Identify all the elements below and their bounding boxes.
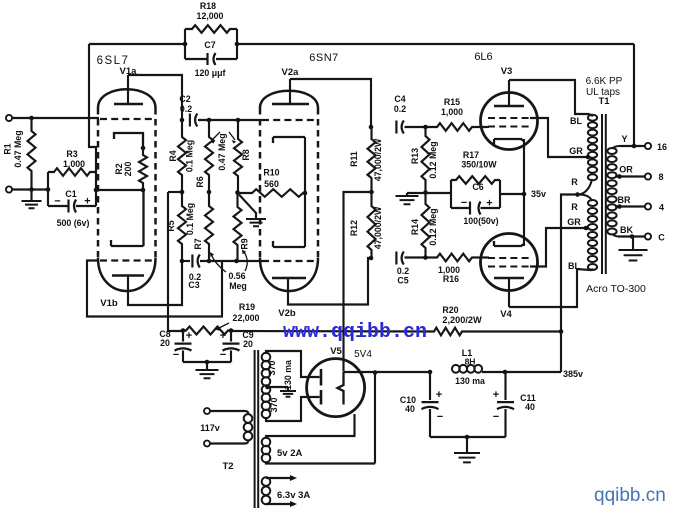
- svg-text:R16: R16: [443, 274, 459, 284]
- svg-text:R3: R3: [66, 149, 77, 159]
- svg-text:+: +: [436, 389, 442, 401]
- svg-text:47,000/2W: 47,000/2W: [373, 206, 383, 249]
- input terminal bottom: [6, 186, 12, 192]
- resistor R19: [183, 327, 231, 335]
- svg-text:BK: BK: [620, 225, 633, 235]
- wire V3 screen to GR: [530, 118, 586, 157]
- plate V5 top: [320, 369, 323, 386]
- svg-text:www.qqibb.cn: www.qqibb.cn: [283, 321, 427, 344]
- cathode V1a: [114, 133, 143, 148]
- svg-text:6L6: 6L6: [474, 51, 492, 63]
- node R3C1 right / cathode junction: [94, 188, 99, 193]
- grid V1a: [100, 118, 152, 120]
- resistor R14: [422, 193, 430, 258]
- terminal 117v top: [204, 408, 210, 414]
- svg-text:5V4: 5V4: [354, 349, 372, 360]
- wire V2a plate to C4: [290, 79, 371, 127]
- svg-text:40: 40: [405, 404, 415, 414]
- capacitor C2: [189, 114, 191, 127]
- resistor R3 / capacitor C1 box: [48, 172, 96, 206]
- wire L1 right: [482, 371, 505, 373]
- node R4-R5: [180, 190, 185, 195]
- node R8-R9-R10: [235, 190, 240, 195]
- svg-text:6.3v 3A: 6.3v 3A: [277, 490, 310, 501]
- svg-text:C7: C7: [204, 40, 215, 50]
- terminal 117v bottom: [204, 441, 210, 447]
- resistor R11: [368, 127, 376, 192]
- wire V1a plate to C2: [128, 75, 182, 120]
- wire C8 C9 bottoms: [183, 361, 231, 363]
- svg-text:C4: C4: [394, 94, 405, 104]
- svg-text:C6: C6: [472, 182, 483, 192]
- wire input top to grid: [12, 117, 99, 119]
- node R13-R14: [423, 190, 428, 195]
- wire C3 to V2b grid: [200, 260, 262, 262]
- output terminal 8: [645, 173, 651, 179]
- svg-text:R1: R1: [3, 143, 13, 154]
- svg-text:0.1 Meg: 0.1 Meg: [185, 140, 195, 172]
- svg-text:C3: C3: [188, 280, 199, 290]
- wire V2b plate to C5: [288, 258, 371, 305]
- node R11-R12: [369, 190, 374, 195]
- svg-text:20: 20: [243, 339, 253, 349]
- grid V3: [488, 125, 530, 127]
- T1 primary lower: [588, 200, 597, 206]
- cathode V1b: [111, 190, 144, 246]
- T1 primary upper: [588, 115, 597, 121]
- svg-text:R7: R7: [193, 238, 203, 249]
- wire B+ to 5v winding: [374, 373, 376, 464]
- resistor R13: [422, 127, 430, 193]
- resistor R20: [431, 328, 466, 336]
- wire HV center tap: [266, 386, 288, 388]
- svg-text:qqibb.cn: qqibb.cn: [594, 485, 666, 506]
- wire V2 cathodes: [304, 137, 306, 247]
- svg-text:V5: V5: [330, 346, 342, 357]
- node R13 top: [423, 125, 428, 130]
- input terminal top: [6, 115, 12, 121]
- node R19 right: [229, 328, 234, 333]
- svg-text:6.6K PP: 6.6K PP: [586, 76, 623, 87]
- node C4 left: [369, 125, 374, 130]
- svg-text:560: 560: [264, 179, 279, 189]
- svg-text:500 (6v): 500 (6v): [57, 218, 90, 228]
- svg-text:0.47 Meg: 0.47 Meg: [13, 130, 23, 167]
- wire tap BK: [618, 235, 645, 237]
- svg-text:V4: V4: [500, 309, 512, 320]
- svg-text:V2a: V2a: [282, 67, 300, 78]
- svg-text:−: −: [461, 197, 467, 209]
- ground V2 cathode network: [239, 195, 256, 220]
- wire 6.3v top: [266, 477, 291, 479]
- svg-text:4: 4: [659, 203, 664, 213]
- svg-text:OR: OR: [619, 165, 633, 175]
- plate V2a: [272, 103, 309, 106]
- svg-text:−: −: [220, 349, 226, 361]
- svg-text:120 μμf: 120 μμf: [195, 68, 226, 78]
- svg-text:R12: R12: [349, 220, 359, 236]
- svg-text:0.2: 0.2: [394, 104, 406, 114]
- screen V4: [488, 265, 530, 267]
- grid V2b: [262, 260, 316, 262]
- node R6 top: [207, 118, 212, 123]
- wire B+ feeder left: [168, 192, 183, 331]
- pointer to R6: [212, 132, 220, 140]
- svg-text:370: 370: [267, 361, 277, 376]
- capacitor C4: [395, 121, 397, 134]
- svg-text:R17: R17: [463, 150, 479, 160]
- node R18-C7 right: [235, 42, 240, 47]
- tube V2 envelope: [259, 108, 262, 258]
- resistor R6: [205, 120, 213, 192]
- svg-text:130 ma: 130 ma: [455, 376, 485, 386]
- svg-text:V3: V3: [501, 66, 513, 77]
- wire 35v node: [500, 193, 524, 195]
- wire 5v bottom: [266, 462, 375, 464]
- node C8C9 ground: [205, 360, 210, 365]
- choke L1: [452, 365, 460, 373]
- plate V4: [494, 277, 524, 280]
- resistor R1: [28, 118, 36, 190]
- resistor R8: [234, 120, 242, 193]
- svg-text:R9: R9: [240, 238, 250, 249]
- T1 secondary: [607, 148, 616, 154]
- node V1a cathode / R2 top: [141, 146, 146, 151]
- grid V4: [488, 257, 530, 259]
- node HV center tap: [265, 385, 270, 390]
- wire V1b grid line: [87, 261, 222, 317]
- node R1 bottom: [29, 187, 34, 192]
- filament V5: [338, 372, 344, 405]
- plate V5 bottom: [320, 390, 323, 405]
- ground HV center tap: [287, 387, 289, 391]
- svg-text:BL: BL: [570, 116, 582, 126]
- ground C8C9: [206, 362, 208, 370]
- svg-text:40: 40: [525, 402, 535, 412]
- svg-text:0.12 Meg: 0.12 Meg: [428, 208, 438, 245]
- wire V1b plate coupling: [128, 261, 182, 305]
- svg-text:1,000: 1,000: [441, 107, 463, 117]
- svg-text:R: R: [571, 202, 578, 212]
- node R18-C7 left: [183, 42, 188, 47]
- svg-text:R5: R5: [166, 220, 176, 231]
- resistor R15: [433, 123, 487, 131]
- capacitor C8: [182, 331, 184, 342]
- wire R20 to B+: [466, 330, 561, 332]
- screen V3: [488, 117, 530, 119]
- wire C3 line left: [182, 260, 190, 262]
- svg-text:R10: R10: [263, 168, 279, 178]
- svg-text:6SN7: 6SN7: [309, 52, 339, 64]
- wire filter bottom: [430, 436, 506, 438]
- resistor R16: [433, 254, 487, 262]
- svg-text:130 ma: 130 ma: [283, 360, 293, 390]
- ground R13R14: [406, 193, 408, 196]
- wire C4 to R15: [405, 126, 434, 128]
- wire B+ to V5 cathode: [344, 192, 372, 371]
- svg-text:8: 8: [658, 172, 663, 182]
- tube V4 envelope: [481, 234, 538, 291]
- svg-text:R4: R4: [168, 150, 178, 161]
- svg-text:C1: C1: [65, 189, 76, 199]
- capacitor C9: [230, 331, 232, 342]
- wire tap OR: [615, 175, 645, 177]
- capacitor C10: [429, 372, 431, 400]
- node R6-R7: [207, 190, 212, 195]
- svg-text:R6: R6: [195, 176, 205, 187]
- output terminal 16: [645, 143, 651, 149]
- svg-text:R8: R8: [241, 149, 251, 160]
- wire feedback to input cathode node: [89, 44, 96, 172]
- node 35v: [522, 192, 527, 197]
- wire HV bottom to V5 plate: [266, 397, 320, 421]
- plate V1b: [112, 274, 144, 277]
- svg-text:12,000: 12,000: [197, 11, 224, 21]
- svg-text:385v: 385v: [563, 369, 583, 379]
- resistor R18 / capacitor C7 feedback box: [185, 29, 237, 59]
- ground input: [30, 190, 32, 202]
- T2 primary winding: [244, 414, 253, 423]
- svg-text:C2: C2: [179, 94, 190, 104]
- svg-text:C: C: [658, 233, 665, 243]
- wire feedback rail right segment: [237, 43, 634, 45]
- svg-text:+: +: [486, 198, 492, 210]
- node R19 left: [181, 328, 186, 333]
- svg-text:370: 370: [269, 398, 279, 413]
- pointer 0.56 to R9: [244, 252, 247, 271]
- svg-text:T1: T1: [598, 96, 610, 107]
- svg-text:22,000: 22,000: [233, 313, 260, 323]
- node L1 right: [503, 370, 508, 375]
- svg-text:Meg: Meg: [229, 281, 247, 291]
- capacitor C11: [504, 372, 506, 400]
- capacitor C3: [191, 255, 193, 268]
- wire ground line: [407, 192, 451, 194]
- wire HV top to V5 plate: [266, 351, 320, 377]
- node Y: [632, 144, 637, 149]
- T2 5v winding: [262, 438, 271, 447]
- node R8 top: [236, 118, 241, 123]
- wire V5 output: [344, 371, 431, 373]
- svg-text:117v: 117v: [200, 423, 220, 433]
- wire R15 to V3 grid: [487, 126, 489, 128]
- wire V3 plate to T1: [509, 80, 589, 114]
- wire V4 plate to T1: [509, 269, 590, 307]
- wire R16 to V4 grid: [487, 256, 489, 258]
- svg-text:R: R: [571, 177, 578, 187]
- svg-text:16: 16: [657, 142, 667, 152]
- svg-text:0.12 Meg: 0.12 Meg: [428, 141, 438, 178]
- svg-text:+: +: [493, 389, 499, 401]
- wire feedback rail left segment: [89, 43, 185, 45]
- wire tap BR: [615, 205, 645, 207]
- resistor R12: [368, 192, 376, 258]
- node R12 bottom: [369, 256, 374, 261]
- T2 HV winding: [262, 353, 271, 362]
- wire input bottom: [12, 188, 48, 190]
- svg-text:8H: 8H: [465, 357, 476, 367]
- svg-text:0.2: 0.2: [180, 104, 192, 114]
- wire 5v top: [266, 414, 355, 438]
- node C3 left: [180, 259, 185, 264]
- svg-text:R11: R11: [349, 151, 359, 167]
- svg-text:R20: R20: [442, 305, 458, 315]
- svg-text:C5: C5: [397, 276, 408, 286]
- node R14 bottom: [423, 255, 428, 260]
- T2 6.3v winding: [262, 477, 271, 486]
- svg-text:1,000: 1,000: [63, 159, 85, 169]
- wire R taps to B+: [561, 195, 578, 373]
- ground filter: [466, 437, 468, 453]
- svg-text:R13: R13: [410, 148, 420, 164]
- svg-text:5v 2A: 5v 2A: [277, 448, 302, 459]
- wire 117v top: [210, 411, 249, 415]
- svg-text:−: −: [54, 196, 60, 208]
- wire 117v bottom: [210, 440, 249, 444]
- svg-text:V2b: V2b: [278, 308, 296, 319]
- output terminal C: [645, 233, 651, 239]
- svg-text:0.1 Meg: 0.1 Meg: [185, 203, 195, 235]
- ground BK: [632, 237, 634, 251]
- T1 core: [602, 114, 606, 274]
- wire cathode node to R2 bottom: [96, 189, 143, 191]
- wire R19 to R20 line: [231, 330, 431, 333]
- pointer R19: [218, 323, 229, 329]
- svg-text:47,000/2W: 47,000/2W: [373, 138, 383, 181]
- tap GR bottom: [584, 226, 589, 231]
- resistor R5: [178, 192, 186, 261]
- node R taps: [575, 192, 580, 197]
- resistor R17 / capacitor C6 box: [451, 180, 500, 208]
- svg-text:R14: R14: [410, 219, 420, 235]
- wire feedback drop to output tap Y: [633, 44, 635, 146]
- node R3-C1 box left: [46, 187, 51, 192]
- resistor R9: [234, 193, 242, 262]
- plate V3: [494, 105, 524, 108]
- svg-text:−: −: [437, 411, 443, 423]
- node R10 right: [303, 191, 308, 196]
- svg-text:20: 20: [160, 338, 170, 348]
- svg-text:Y: Y: [621, 134, 627, 144]
- node filter ground: [465, 435, 470, 440]
- cathode V2a: [273, 137, 305, 143]
- grid V2a: [262, 119, 316, 121]
- svg-text:R19: R19: [239, 302, 255, 312]
- node R9 bottom: [234, 259, 239, 264]
- node C2-R4: [180, 118, 185, 123]
- tube V1 envelope: [97, 108, 100, 258]
- tube V3 envelope: [481, 93, 538, 150]
- node R1 top: [29, 116, 34, 121]
- svg-text:0.47 Meg: 0.47 Meg: [217, 133, 227, 170]
- node V5 B+: [373, 370, 378, 375]
- svg-text:−: −: [173, 349, 179, 361]
- svg-text:Acro TO-300: Acro TO-300: [586, 283, 646, 295]
- svg-text:V1b: V1b: [100, 298, 118, 309]
- cathode V2b: [273, 241, 305, 247]
- node L1 left: [428, 370, 433, 375]
- tap GR top: [586, 155, 591, 160]
- svg-text:0.56: 0.56: [228, 271, 245, 281]
- node C3 right: [207, 259, 212, 264]
- T2 core: [255, 350, 259, 508]
- plate V1a: [114, 103, 143, 106]
- svg-text:R18: R18: [200, 1, 216, 11]
- node B+ R20: [559, 329, 564, 334]
- wire B+ stub to R4R5 node: [168, 191, 182, 193]
- resistor R10: [238, 189, 306, 197]
- node BK: [630, 234, 635, 239]
- resistor R7: [205, 192, 213, 261]
- node R2 bottom: [141, 188, 146, 193]
- cathode V3: [494, 139, 524, 144]
- svg-text:R15: R15: [444, 97, 460, 107]
- node BR: [617, 204, 622, 209]
- svg-text:BR: BR: [618, 195, 631, 205]
- wire 6.3v bottom: [266, 503, 291, 505]
- svg-text:GR: GR: [569, 146, 583, 156]
- pointer 0.56 to R7: [211, 254, 226, 272]
- svg-text:100(50v): 100(50v): [463, 216, 498, 226]
- cathode V4: [494, 241, 524, 246]
- wire V4 screen to GR: [530, 228, 585, 267]
- svg-text:35v: 35v: [531, 189, 546, 199]
- wire tap Y: [620, 145, 645, 147]
- grid V1b: [100, 259, 152, 261]
- resistor R2: [139, 148, 147, 190]
- tube V5 envelope: [307, 359, 365, 417]
- wire C2 to V2a grid: [198, 119, 262, 121]
- pointer to R8: [229, 132, 235, 140]
- svg-text:200: 200: [123, 162, 133, 177]
- svg-text:BL: BL: [568, 261, 580, 271]
- svg-text:+: +: [220, 330, 226, 342]
- svg-text:+: +: [84, 196, 90, 208]
- wire C5 to R16: [405, 256, 434, 258]
- node OR: [617, 174, 622, 179]
- svg-text:−: −: [493, 411, 499, 423]
- svg-text:+: +: [186, 330, 192, 342]
- plate V2b: [272, 277, 306, 280]
- svg-text:350/10W: 350/10W: [461, 160, 497, 170]
- svg-text:0.2: 0.2: [397, 266, 409, 276]
- capacitor C5: [395, 252, 397, 265]
- svg-text:2,200/2W: 2,200/2W: [442, 315, 482, 325]
- wire V3V4 cathode bus: [523, 139, 525, 246]
- svg-text:T2: T2: [222, 461, 233, 472]
- output terminal 4: [645, 203, 651, 209]
- resistor R4: [178, 120, 186, 192]
- svg-text:GR: GR: [567, 217, 581, 227]
- wire 385v line: [505, 371, 561, 373]
